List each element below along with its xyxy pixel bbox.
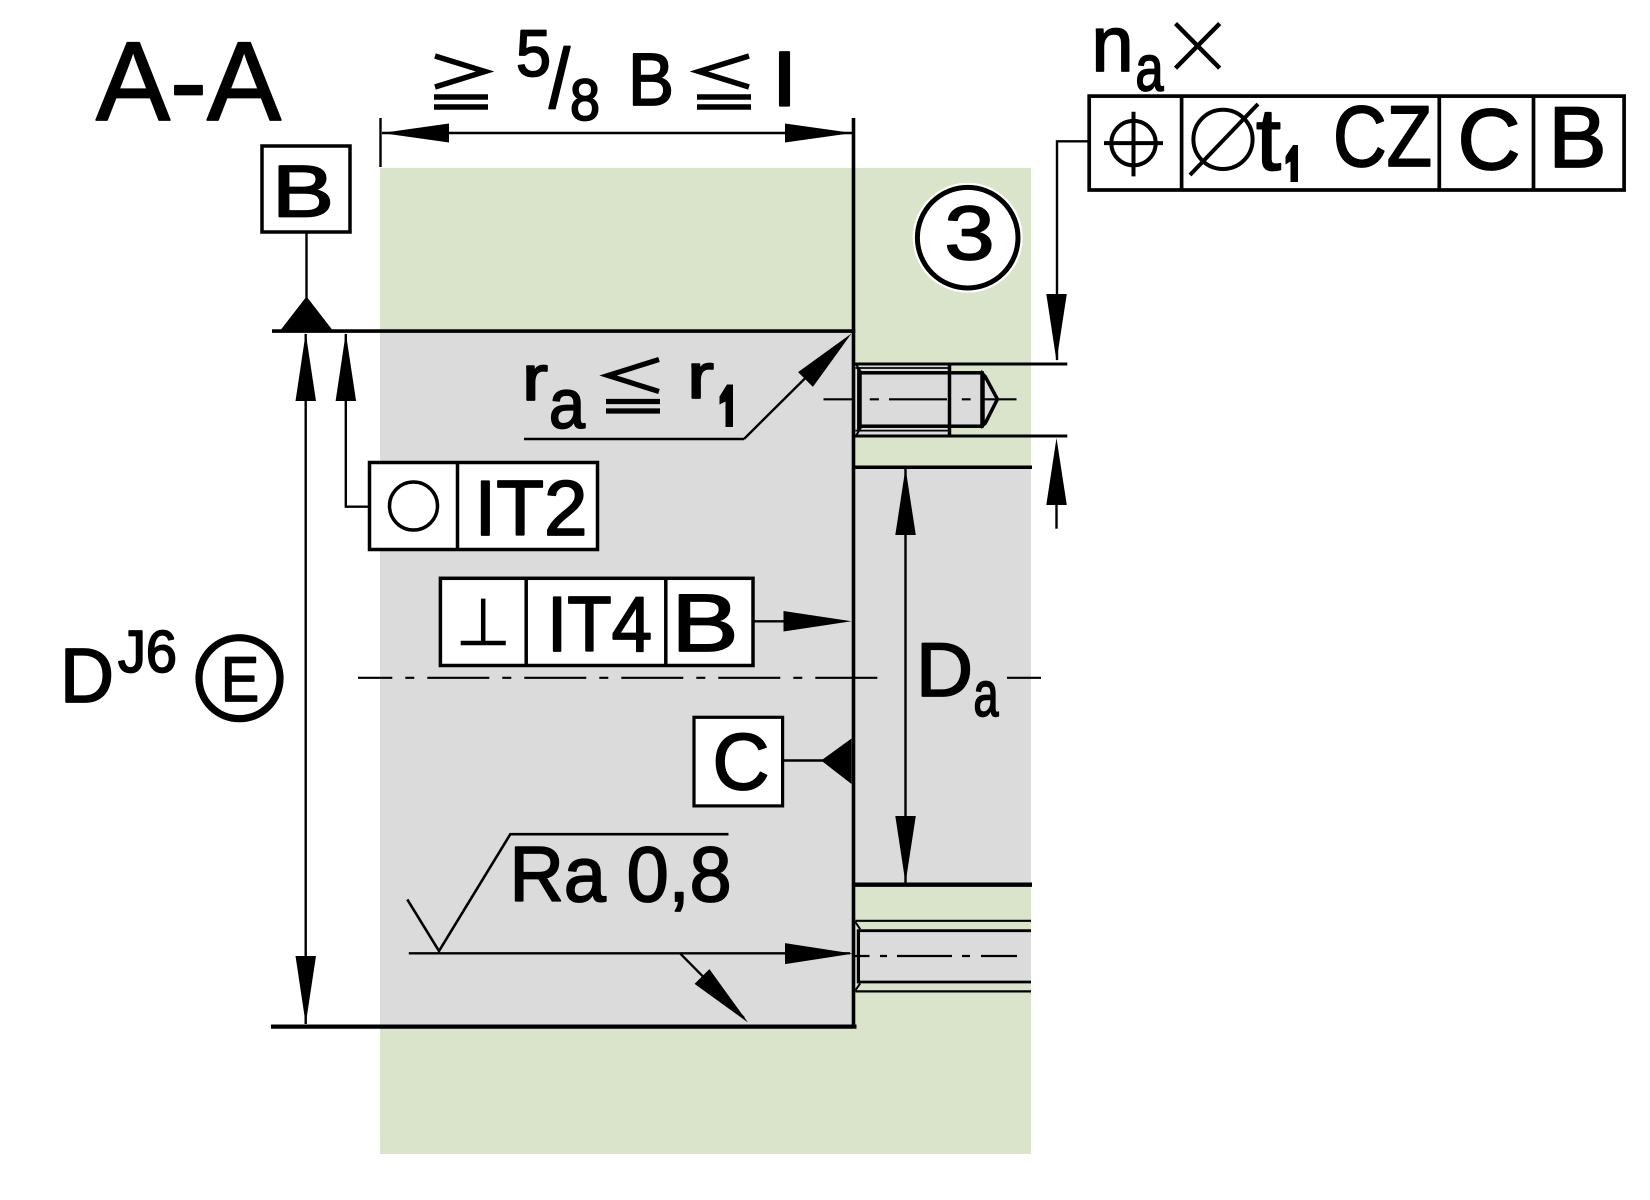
right gray region top line — [855, 466, 1032, 470]
Da dimension line — [904, 468, 906, 883]
top dimension extension tick left — [379, 118, 381, 167]
tall dimension top arrow — [296, 333, 317, 401]
lower threaded hole inner top line — [859, 929, 1031, 932]
upper screw hole thread line bottom — [856, 430, 949, 432]
svg-text:B: B — [272, 152, 334, 233]
thread engagement fill upper hole — [855, 364, 950, 436]
svg-text:IT2: IT2 — [475, 464, 588, 552]
IT2 leader arrow — [336, 333, 357, 401]
bearing ring gray block — [380, 331, 854, 1026]
svg-text:l: l — [774, 39, 796, 122]
svg-text:8: 8 — [570, 68, 600, 133]
perpendicularity IT4 B frame — [440, 578, 753, 669]
svg-text:n: n — [1092, 0, 1134, 88]
datum C triangle — [821, 739, 851, 785]
circularity IT2 frame — [370, 463, 598, 553]
svg-text:D: D — [916, 628, 973, 713]
main bore centerline — [358, 677, 877, 679]
set screw left end line — [857, 367, 859, 432]
housing green band — [380, 168, 1031, 1154]
svg-text:C: C — [1458, 92, 1521, 188]
Da top arrow — [895, 468, 916, 535]
datum B stem — [305, 232, 307, 299]
datum C leader — [783, 759, 823, 761]
screw dim lower stem — [1055, 505, 1057, 529]
svg-text:IT4: IT4 — [547, 580, 652, 668]
lower hole chamfer bottom — [855, 983, 860, 990]
set screw left chamfer top — [856, 364, 862, 373]
upper screw hole outer top line — [855, 363, 1067, 366]
block top edge line — [272, 329, 855, 333]
lower threaded hole outer top line — [855, 920, 1031, 922]
roughness note ra le r1 — [522, 340, 733, 443]
ra r1 leader arrow — [798, 334, 851, 387]
set screw thread end line — [948, 363, 952, 438]
top dimension text GE 5/8 B LE l — [434, 16, 796, 133]
lower threaded hole end line — [857, 929, 860, 983]
item number circle 3 — [913, 183, 1023, 293]
tall dimension bottom arrow — [296, 956, 317, 1024]
IT4 leader arrow — [784, 611, 852, 632]
ra r1 underline — [524, 438, 744, 440]
upper screw hole outer bottom line — [855, 435, 1067, 438]
svg-text:t: t — [1256, 90, 1281, 189]
set screw cone point — [983, 374, 997, 425]
Ra branch arrow — [695, 969, 748, 1022]
svg-text:CZ: CZ — [1333, 89, 1432, 185]
bore wall line — [852, 118, 856, 1027]
Ra leader line — [409, 952, 850, 954]
svg-text:B: B — [1549, 90, 1607, 186]
svg-text:3: 3 — [945, 192, 995, 277]
svg-text:D: D — [60, 633, 114, 719]
Da bottom arrow — [895, 816, 916, 883]
block bottom edge line — [271, 1024, 857, 1028]
ra r1 leader diagonal — [744, 354, 830, 440]
svg-text:E: E — [221, 645, 259, 715]
set screw centerline — [824, 398, 1017, 400]
envelope symbol circled E — [199, 638, 280, 719]
position tolerance frame — [1089, 89, 1624, 190]
IT2 leader line — [346, 334, 370, 507]
svg-text:a: a — [974, 658, 999, 730]
IT4 leader line — [753, 620, 788, 622]
svg-text:a: a — [1136, 32, 1165, 105]
tall dimension line DJ6 — [305, 334, 307, 1024]
lower threaded hole inner bottom line — [859, 981, 1031, 984]
Ra branch leader — [680, 953, 744, 1018]
svg-text:r: r — [687, 340, 714, 412]
svg-text:B: B — [672, 578, 739, 669]
upper screw hole thread line top — [856, 367, 949, 369]
lower threaded hole outer bottom line — [855, 990, 1031, 992]
svg-text:/: / — [549, 32, 571, 126]
svg-text:r: r — [522, 342, 548, 414]
svg-text:C: C — [713, 717, 770, 806]
svg-text:Ra 0,8: Ra 0,8 — [510, 830, 732, 918]
right gray region bottom line — [855, 883, 1032, 887]
svg-text:J6: J6 — [118, 619, 177, 685]
svg-text:a: a — [549, 365, 585, 443]
datum C box — [694, 717, 783, 806]
datum B triangle — [281, 297, 332, 330]
lower hole chamfer top — [855, 922, 860, 929]
position frame leader — [1057, 141, 1089, 360]
screw dim down arrow — [1046, 294, 1067, 361]
lower threaded hole interior — [858, 931, 1031, 982]
screw dim up arrow — [1046, 438, 1067, 505]
set screw left chamfer bottom — [856, 426, 862, 436]
svg-text:5: 5 — [516, 16, 551, 90]
top dimension line — [382, 132, 852, 134]
lower hole centerline — [853, 955, 1017, 957]
svg-text:A-A: A-A — [96, 19, 281, 144]
Ra leader arrow — [785, 943, 853, 964]
top dimension left arrow — [382, 124, 450, 143]
right gray region — [855, 467, 1031, 884]
datum B box — [262, 146, 350, 232]
top dimension right arrow — [785, 124, 853, 143]
svg-text:B: B — [628, 38, 674, 121]
surface finish symbol Ra 0,8 — [407, 830, 731, 951]
set screw body — [860, 373, 982, 426]
